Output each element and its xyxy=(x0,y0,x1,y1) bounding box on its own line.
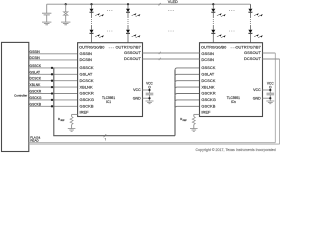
svg-text:DCSIN: DCSIN xyxy=(80,57,93,62)
svg-text:DCSCK: DCSCK xyxy=(30,77,42,81)
svg-text:DCSIN: DCSIN xyxy=(30,56,41,60)
svg-text:GSCKB: GSCKB xyxy=(80,104,94,109)
svg-text:VLED: VLED xyxy=(168,0,178,4)
svg-text:GSLAT: GSLAT xyxy=(80,72,93,77)
svg-text:DCSCK: DCSCK xyxy=(80,78,94,83)
svg-text:Copyright © 2017, Texas Instru: Copyright © 2017, Texas Instruments Inco… xyxy=(196,148,276,152)
svg-text:OUTR7/G7/B7: OUTR7/G7/B7 xyxy=(116,45,141,50)
svg-text:GSCKG: GSCKG xyxy=(30,96,42,100)
svg-text:GSCKB: GSCKB xyxy=(30,102,42,106)
svg-text:GSCKB: GSCKB xyxy=(201,104,215,109)
svg-text:GSCKG: GSCKG xyxy=(201,97,215,102)
svg-text:IREF: IREF xyxy=(201,110,211,115)
svg-text:OUTR0/G0/B0: OUTR0/G0/B0 xyxy=(201,45,227,50)
svg-text:ICn: ICn xyxy=(231,100,236,104)
svg-text:IC1: IC1 xyxy=(106,100,111,104)
svg-text:OUTR0/G0/B0: OUTR0/G0/B0 xyxy=(79,45,105,50)
svg-text:DCSCK: DCSCK xyxy=(201,78,215,83)
svg-text:GSSCK: GSSCK xyxy=(201,65,215,70)
svg-text:GSSOUT: GSSOUT xyxy=(244,50,261,55)
svg-text:GSCKR: GSCKR xyxy=(80,91,94,96)
svg-text:GSSIN: GSSIN xyxy=(30,50,41,54)
svg-text:GSCKG: GSCKG xyxy=(80,97,94,102)
svg-text:GSSIN: GSSIN xyxy=(201,51,214,56)
svg-text:XBLNK: XBLNK xyxy=(80,84,93,89)
svg-text:OUTR7/G7/B7: OUTR7/G7/B7 xyxy=(236,45,261,50)
svg-text:Controller: Controller xyxy=(14,94,27,98)
svg-text:XBLNK: XBLNK xyxy=(201,84,214,89)
svg-text:VCC: VCC xyxy=(146,81,153,85)
svg-text:GSCKR: GSCKR xyxy=(30,90,42,94)
svg-text:VCC: VCC xyxy=(267,81,274,85)
svg-text:IREF: IREF xyxy=(80,110,90,115)
svg-text:GND: GND xyxy=(133,96,141,100)
svg-text:VCC: VCC xyxy=(253,88,261,92)
svg-text:GSLAT: GSLAT xyxy=(30,70,41,74)
svg-text:VCC: VCC xyxy=(133,88,141,92)
svg-text:GSSCK: GSSCK xyxy=(30,64,42,68)
svg-text:GSLAT: GSLAT xyxy=(201,72,214,77)
svg-text:READ: READ xyxy=(30,139,39,143)
svg-text:GSSIN: GSSIN xyxy=(80,51,93,56)
svg-text:GSCKR: GSCKR xyxy=(201,91,215,96)
svg-text:XBLNK: XBLNK xyxy=(30,83,42,87)
svg-text:DCSOUT: DCSOUT xyxy=(244,56,261,61)
svg-text:DCSIN: DCSIN xyxy=(201,57,214,62)
svg-text:DCSOUT: DCSOUT xyxy=(124,56,141,61)
svg-text:GSSCK: GSSCK xyxy=(80,65,94,70)
svg-text:GND: GND xyxy=(253,96,261,100)
svg-text:GSSOUT: GSSOUT xyxy=(124,50,141,55)
